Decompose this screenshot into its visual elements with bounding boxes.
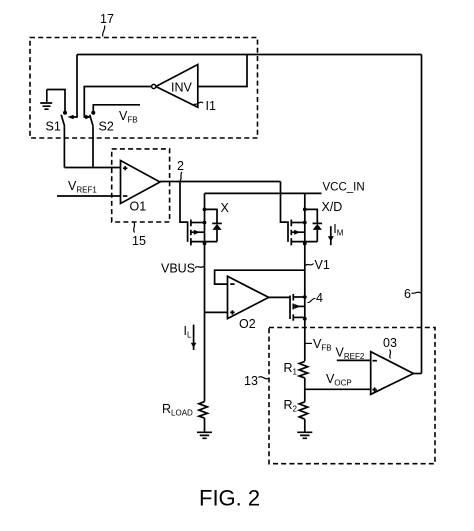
wire V1 rail from X/D source down — [304, 242, 306, 297]
transistor X/D channel — [290, 220, 292, 246]
wire O2 feedback from V1 rail — [215, 270, 305, 284]
wire VOCP to comparator plus input — [305, 388, 371, 390]
wire comparator output to net 6 — [413, 373, 421, 375]
transistor X gate wire — [180, 182, 188, 242]
wire inverter I1 input jog to net 6 — [198, 55, 247, 87]
wire O2 plus input from VBUS rail — [205, 311, 228, 313]
ground at switch S1 — [40, 90, 52, 110]
body diode of X/D — [305, 209, 322, 241]
wire summing node to O1 plus input — [64, 167, 120, 169]
svg-text:VCC_IN: VCC_IN — [323, 182, 365, 194]
ground below R2 — [297, 419, 312, 438]
transistor 4 channel — [292, 294, 294, 321]
transistor X drain stub — [191, 221, 206, 225]
svg-text:O2: O2 — [239, 317, 256, 331]
svg-text:S2: S2 — [99, 120, 114, 134]
wire VCC_IN — [205, 192, 322, 194]
resistor RLOAD — [162, 402, 207, 418]
transistor X/D drain rail — [303, 193, 307, 245]
svg-text:VBUS: VBUS — [161, 262, 195, 276]
label I1 with leader — [194, 99, 216, 113]
label 17 with leader — [100, 12, 114, 37]
svg-text:O1: O1 — [130, 200, 147, 214]
svg-text:6: 6 — [404, 287, 411, 301]
wire VREF2 to comparator minus input — [337, 359, 371, 361]
svg-text:X/D: X/D — [322, 200, 343, 214]
wire S2 to summing node — [92, 126, 94, 167]
svg-text:4: 4 — [316, 291, 323, 305]
dashed box 17 — [30, 38, 258, 139]
dashed box 15 — [112, 149, 170, 222]
svg-text:FIG. 2: FIG. 2 — [199, 486, 260, 511]
transistor X/D source stub — [291, 241, 317, 243]
label 13 with leader — [244, 374, 269, 388]
current arrow IM — [328, 222, 344, 245]
svg-text:V1: V1 — [315, 258, 330, 272]
label 6 with leader — [404, 287, 421, 301]
transistor X/D body arrow — [291, 230, 304, 235]
transistor X drain rail to VCC_IN — [203, 193, 207, 245]
wire transistor 4 source into box 13 — [304, 319, 306, 361]
current arrow IL — [184, 324, 197, 350]
label V1 with leader — [306, 258, 330, 272]
dashed box 13 — [269, 328, 435, 464]
transistor 4 body arrow — [293, 304, 304, 309]
transistor X/D drain stub — [291, 221, 306, 225]
wire transistor 4 drain to V1 rail — [304, 297, 306, 319]
transistor 4 gate bar — [289, 296, 291, 320]
transistor X/D gate wire — [281, 182, 289, 242]
wire net 6 top horizontal — [77, 54, 422, 56]
op-amp inverter I1 — [152, 65, 198, 108]
transistor 4 source stub — [293, 317, 306, 321]
svg-text:13: 13 — [244, 374, 258, 388]
comparator 03 — [371, 352, 414, 395]
wire net 6 right vertical — [421, 55, 423, 374]
svg-text:2: 2 — [177, 159, 184, 173]
label 03 with leader — [383, 336, 397, 359]
wire inverter I1 output to S2 control — [84, 87, 151, 120]
transistor X channel — [190, 220, 192, 246]
wire S1 control from net 6 — [68, 55, 78, 120]
wire ground to S1 contact — [47, 90, 65, 113]
wire S2 top to VFB net — [93, 105, 140, 112]
svg-text:I1: I1 — [206, 99, 216, 113]
wire VREF1 to O1 minus input — [57, 195, 121, 197]
wire O2 output to transistor 4 gate — [269, 296, 290, 298]
ground below RLOAD — [197, 418, 212, 438]
op-amp O2 — [228, 276, 269, 331]
wire R1 to VOCP node and R2 — [304, 378, 306, 402]
resistor R1 — [284, 361, 308, 378]
svg-text:15: 15 — [132, 234, 146, 248]
transistor X body arrow — [191, 230, 205, 235]
wire node 2 from O1 output — [160, 181, 281, 183]
svg-text:17: 17 — [100, 12, 114, 26]
label 2 with leader — [177, 159, 184, 181]
switch S1 — [61, 111, 67, 127]
svg-text:03: 03 — [383, 336, 397, 350]
svg-text:X: X — [221, 201, 230, 215]
transistor X source stub — [191, 241, 217, 243]
resistor R2 — [284, 398, 308, 419]
switch S2 — [90, 111, 96, 127]
wire VBUS rail from X source down — [204, 242, 206, 402]
body diode of X — [205, 209, 222, 241]
svg-text:S1: S1 — [46, 120, 61, 134]
wire S1 to summing node — [63, 126, 65, 167]
svg-text:INV: INV — [171, 81, 193, 95]
label VBUS with leader — [161, 262, 204, 276]
op-amp O1 — [121, 161, 161, 214]
label VFB in box 13 with tick — [305, 337, 332, 353]
label 4 with leader — [308, 291, 324, 305]
transistor 4 drain stub — [293, 295, 306, 299]
label 15 with leader — [132, 223, 146, 249]
